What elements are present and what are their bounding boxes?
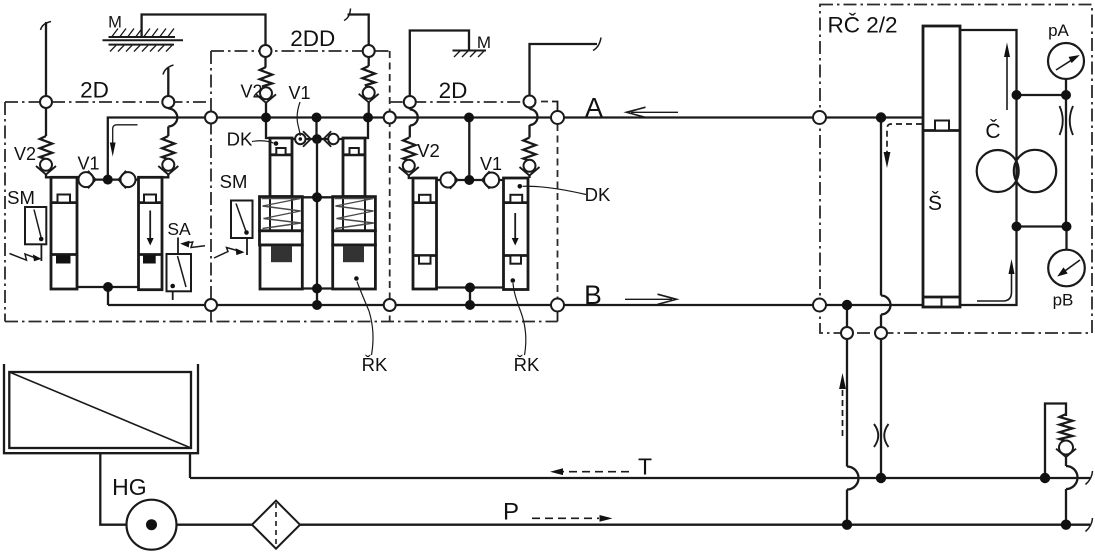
svg-text:M: M xyxy=(108,14,122,32)
svg-text:SA: SA xyxy=(167,219,191,239)
svg-text:HG: HG xyxy=(112,474,147,500)
svg-text:pA: pA xyxy=(1048,21,1069,40)
svg-text:T: T xyxy=(638,454,652,480)
svg-text:pB: pB xyxy=(1053,291,1074,310)
svg-text:P: P xyxy=(503,499,519,526)
svg-text:RČ 2/2: RČ 2/2 xyxy=(828,13,898,38)
svg-text:DK: DK xyxy=(585,184,611,205)
svg-text:SM: SM xyxy=(7,187,35,208)
svg-text:V2: V2 xyxy=(240,82,262,102)
svg-text:ŘK: ŘK xyxy=(514,354,540,375)
svg-text:Š: Š xyxy=(928,192,942,215)
svg-text:V2: V2 xyxy=(14,144,36,164)
svg-text:B: B xyxy=(584,280,602,310)
svg-text:2DD: 2DD xyxy=(290,26,335,51)
svg-text:SM: SM xyxy=(220,171,248,192)
svg-text:A: A xyxy=(585,93,603,123)
svg-text:M: M xyxy=(477,33,491,52)
svg-text:DK: DK xyxy=(227,129,253,150)
svg-text:V1: V1 xyxy=(288,83,310,103)
svg-text:Č: Č xyxy=(985,120,1000,143)
svg-text:V2: V2 xyxy=(417,140,440,161)
svg-text:V1: V1 xyxy=(77,154,99,174)
svg-text:ŘK: ŘK xyxy=(362,354,388,375)
svg-text:V1: V1 xyxy=(480,154,502,174)
svg-text:2D: 2D xyxy=(439,78,468,103)
svg-text:2D: 2D xyxy=(80,78,109,103)
